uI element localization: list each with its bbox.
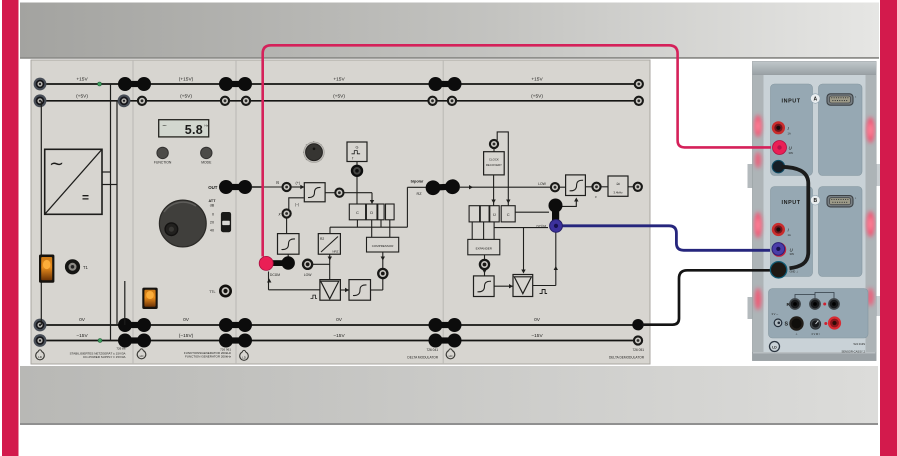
svg-text:(+5V): (+5V) <box>333 93 345 99</box>
svg-text:∼: ∼ <box>162 124 167 130</box>
svg-text:−15V: −15V <box>76 333 88 339</box>
svg-text:524 013S: 524 013S <box>853 342 865 346</box>
svg-text:726 051: 726 051 <box>632 348 644 352</box>
svg-text:SENSOR-CASSY 2: SENSOR-CASSY 2 <box>841 350 865 354</box>
svg-text:x: x <box>594 195 597 199</box>
svg-text:20: 20 <box>210 220 214 224</box>
svg-text:+15V: +15V <box>531 77 543 83</box>
svg-text:MODE: MODE <box>201 160 212 164</box>
svg-text:C: C <box>507 212 510 217</box>
svg-text:726 86: 726 86 <box>116 346 126 350</box>
svg-text:30V: 30V <box>789 151 794 155</box>
svg-text:≈: ≈ <box>616 181 620 188</box>
svg-text:(+): (+) <box>296 181 301 185</box>
svg-text:−15V: −15V <box>531 333 543 339</box>
svg-text:COMPRESSOR: COMPRESSOR <box>372 244 395 248</box>
svg-text:(−): (−) <box>295 203 300 207</box>
svg-text:3 V ⎓: 3 V ⎓ <box>772 312 779 316</box>
svg-text:bipolar: bipolar <box>411 180 424 184</box>
svg-text:LOW: LOW <box>304 273 313 277</box>
svg-text:DCÜM: DCÜM <box>536 224 546 228</box>
svg-text:+15V: +15V <box>76 77 88 83</box>
svg-text:RZ: RZ <box>416 192 422 196</box>
svg-text:TTL: TTL <box>209 290 215 294</box>
svg-text:LOW: LOW <box>538 182 547 186</box>
svg-text:0V: 0V <box>79 317 86 323</box>
svg-text:30V: 30V <box>790 252 795 256</box>
svg-text:0: 0 <box>212 212 214 216</box>
svg-text:DCÜM: DCÜM <box>270 273 280 277</box>
svg-text:A: A <box>813 97 817 103</box>
svg-text:(+5V): (+5V) <box>531 93 543 99</box>
svg-text:∼: ∼ <box>49 154 64 174</box>
svg-text:S: S <box>785 322 789 328</box>
svg-text:FUNCTION GENERATOR 200kHz: FUNCTION GENERATOR 200kHz <box>185 354 232 358</box>
svg-text:(−15V): (−15V) <box>179 333 194 339</box>
svg-text:dB: dB <box>210 204 215 208</box>
svg-text:OUT: OUT <box>208 185 218 190</box>
svg-text:INPUT: INPUT <box>782 98 801 104</box>
svg-text:5.8: 5.8 <box>185 123 203 137</box>
svg-text:(+15V): (+15V) <box>179 77 194 83</box>
svg-text:40: 40 <box>210 228 214 232</box>
svg-text:−15V: −15V <box>333 333 345 339</box>
svg-text:DC-POWER SUPPLY ± 15V/3A: DC-POWER SUPPLY ± 15V/3A <box>83 355 125 359</box>
svg-text:DELTA MODULATOR: DELTA MODULATOR <box>407 356 438 360</box>
svg-text:CLOCK: CLOCK <box>489 158 499 162</box>
svg-text:EXPANDER: EXPANDER <box>476 246 493 250</box>
svg-text:D: D <box>370 210 373 215</box>
svg-text:ATT: ATT <box>209 199 217 203</box>
svg-text:3.4kHz: 3.4kHz <box>613 191 623 195</box>
svg-text:⊥: ⊥ <box>795 332 798 336</box>
svg-text:(+5V): (+5V) <box>76 93 88 99</box>
svg-text:C: C <box>356 210 359 215</box>
svg-text:1A: 1A <box>788 233 791 237</box>
svg-text:=: = <box>82 191 89 205</box>
svg-text:FUNCTION: FUNCTION <box>154 160 172 164</box>
svg-text:NRZ: NRZ <box>332 250 338 254</box>
svg-text:1A: 1A <box>788 131 791 135</box>
svg-text:T1: T1 <box>83 265 89 270</box>
svg-text:0V: 0V <box>534 317 541 323</box>
svg-text:Ü: Ü <box>493 212 496 217</box>
svg-text:726 041: 726 041 <box>426 348 438 352</box>
svg-text:LD: LD <box>772 345 777 349</box>
svg-text:0V: 0V <box>336 317 343 323</box>
svg-text:0V: 0V <box>183 317 190 323</box>
svg-text:Hz: Hz <box>205 124 209 128</box>
svg-text:R2: R2 <box>320 237 324 241</box>
svg-text:0 V W I: 0 V W I <box>812 333 820 336</box>
svg-text:INPUT: INPUT <box>782 200 801 206</box>
svg-text:DELTA DEMODULATOR: DELTA DEMODULATOR <box>609 355 645 359</box>
svg-text:(+5V): (+5V) <box>180 93 192 99</box>
svg-text:B: B <box>813 198 817 204</box>
svg-text:RECOVERY: RECOVERY <box>486 163 502 167</box>
svg-text:G: G <box>356 146 359 150</box>
svg-text:+15V: +15V <box>333 77 345 83</box>
